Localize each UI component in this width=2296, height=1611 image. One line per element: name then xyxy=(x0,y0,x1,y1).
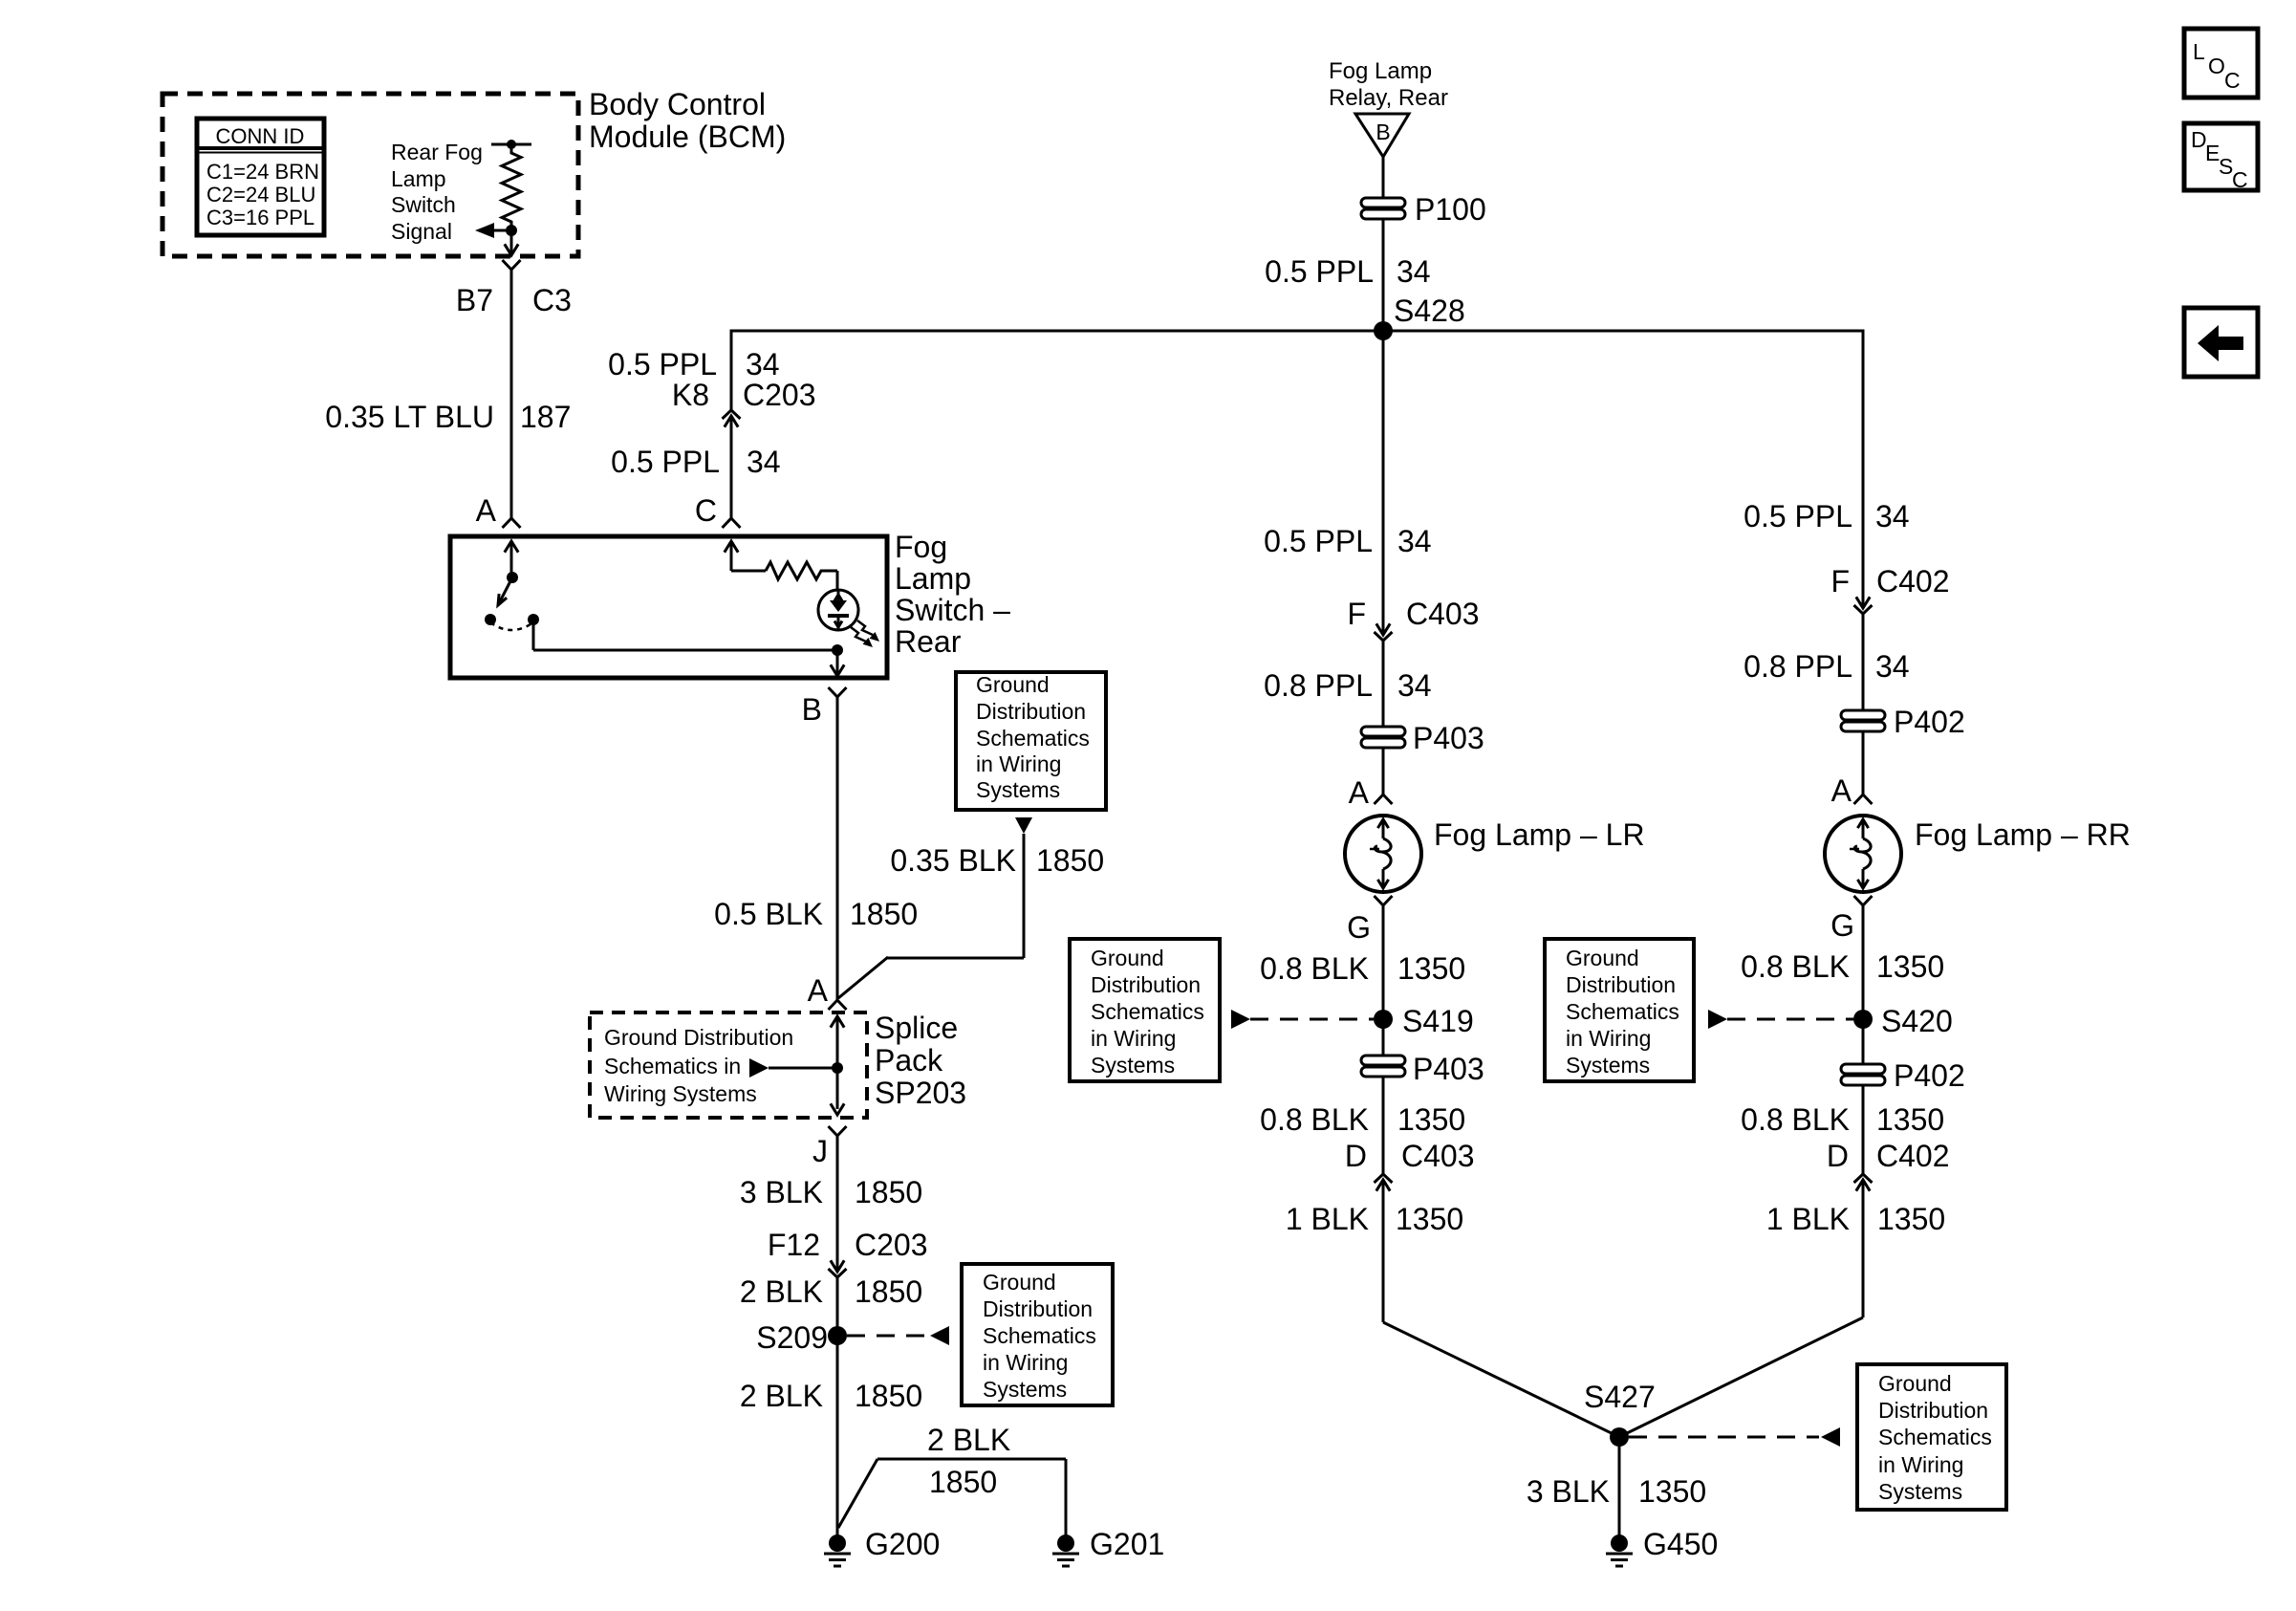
svg-text:1350: 1350 xyxy=(1876,1102,1944,1137)
label D | C403 xyxy=(1345,1139,1475,1173)
svg-text:Systems: Systems xyxy=(1878,1479,1962,1504)
splice S428 xyxy=(1374,294,1465,340)
switch pole wire w/ up arrow xyxy=(505,541,518,577)
splice S209 xyxy=(756,1320,847,1355)
svg-text:Systems: Systems xyxy=(976,777,1060,802)
svg-text:Switch: Switch xyxy=(391,192,456,217)
ground distribution reference box (S420) xyxy=(1545,939,1694,1081)
svg-text:C: C xyxy=(2232,167,2248,192)
label F | C402 xyxy=(1830,564,1949,599)
ground distribution reference box (S427) xyxy=(1857,1364,2006,1510)
svg-text:Distribution: Distribution xyxy=(1878,1398,1988,1423)
main distribution wire xyxy=(730,330,1865,333)
label 3 BLK | 1350 xyxy=(1527,1474,1706,1509)
grommet P100 xyxy=(1361,192,1486,227)
splice pack pin J connector xyxy=(829,1126,847,1136)
svg-text:C3=16 PPL: C3=16 PPL xyxy=(206,206,314,229)
svg-text:Distribution: Distribution xyxy=(1566,972,1676,997)
node: resistor bottom junction xyxy=(506,225,517,236)
wire: lamp G to S420 xyxy=(1862,905,1865,1019)
reference arrow to SP203 xyxy=(749,1058,837,1078)
label K8 | C203 xyxy=(672,378,816,412)
svg-text:Ground: Ground xyxy=(1566,946,1639,970)
splice pack internal wire xyxy=(831,1016,844,1115)
Fog Lamp - RR xyxy=(1825,816,1901,892)
Splice Pack SP203 dashed outline xyxy=(590,1012,867,1118)
label 0.5 PPL | 34 xyxy=(1264,524,1431,558)
connector C403 (D) xyxy=(1375,1174,1393,1203)
svg-text:Distribution: Distribution xyxy=(976,699,1086,724)
svg-text:Systems: Systems xyxy=(1566,1053,1650,1078)
connector C203 (K8) xyxy=(723,410,741,439)
svg-text:Schematics: Schematics xyxy=(1878,1425,1992,1449)
wire: P403 to lamp pin A xyxy=(1382,748,1385,795)
resistor (LED dropping) xyxy=(766,562,837,579)
svg-text:Fog: Fog xyxy=(895,530,947,564)
wire: S420 to P402 xyxy=(1862,1019,1865,1065)
label F | C403 xyxy=(1347,597,1479,631)
svg-text:0.5 PPL: 0.5 PPL xyxy=(1265,254,1374,289)
svg-text:3 BLK: 3 BLK xyxy=(1527,1474,1610,1509)
wire: S209 to G200 xyxy=(836,1336,839,1535)
splice S420 xyxy=(1853,1004,1953,1038)
wire: C402 to P402 xyxy=(1862,614,1865,711)
svg-text:Distribution: Distribution xyxy=(1091,972,1201,997)
svg-text:O: O xyxy=(2208,54,2225,78)
lamp pin G connector xyxy=(1854,896,1873,905)
wire: BCM B7 to switch pin A, 0.35 LT BLU 187 xyxy=(510,270,513,518)
svg-text:0.5 PPL: 0.5 PPL xyxy=(608,347,717,381)
label 0.35 LT BLU | 187 xyxy=(325,400,571,434)
svg-text:B: B xyxy=(802,692,822,727)
splice S419 xyxy=(1374,1004,1474,1038)
reference arrow to S420 xyxy=(1708,1010,1853,1029)
svg-text:0.8 PPL: 0.8 PPL xyxy=(1264,668,1373,703)
svg-text:34: 34 xyxy=(747,445,781,479)
svg-text:CONN ID: CONN ID xyxy=(216,124,305,148)
svg-text:A: A xyxy=(808,973,829,1008)
svg-text:S427: S427 xyxy=(1584,1380,1656,1414)
splice pack reference text xyxy=(604,1025,793,1106)
svg-text:Ground: Ground xyxy=(983,1270,1056,1295)
label 3 BLK | 1850 xyxy=(740,1175,922,1209)
svg-text:0.8 BLK: 0.8 BLK xyxy=(1741,949,1850,984)
wire: J to C203 F12 xyxy=(836,1136,839,1249)
Fog Lamp - LR xyxy=(1345,816,1421,892)
svg-text:1850: 1850 xyxy=(850,897,918,931)
switch blade and contacts xyxy=(485,572,539,630)
svg-text:0.8 BLK: 0.8 BLK xyxy=(1260,1102,1369,1137)
wire: resistor to LED xyxy=(836,571,839,591)
svg-text:G450: G450 xyxy=(1643,1527,1718,1561)
svg-text:C: C xyxy=(695,493,717,528)
svg-text:Ground: Ground xyxy=(1091,946,1164,970)
LED light emission arrows xyxy=(851,620,879,647)
label 0.5 PPL | 34 xyxy=(1265,254,1430,289)
svg-text:A: A xyxy=(1831,773,1852,808)
wire: switch pin B to splice pack xyxy=(836,697,839,1000)
svg-text:0.5 PPL: 0.5 PPL xyxy=(1744,499,1852,533)
switch pin C connector xyxy=(723,518,741,528)
Fog Lamp Switch - Rear label xyxy=(895,530,1010,659)
switch pin A connector xyxy=(503,518,521,528)
ground distribution reference box (S209) xyxy=(962,1264,1113,1405)
BCM label xyxy=(589,87,786,154)
svg-text:Schematics: Schematics xyxy=(976,726,1090,751)
svg-text:0.5 PPL: 0.5 PPL xyxy=(1264,524,1373,558)
label 0.8 BLK | 1350 xyxy=(1260,951,1465,986)
grommet P403 xyxy=(1361,721,1484,755)
svg-text:Switch –: Switch – xyxy=(895,593,1010,627)
svg-text:1 BLK: 1 BLK xyxy=(1766,1202,1850,1236)
wire: C203 to S209 xyxy=(836,1277,839,1336)
back-arrow box xyxy=(2184,308,2258,377)
LED indicator xyxy=(818,590,858,630)
svg-text:Schematics: Schematics xyxy=(1566,999,1679,1024)
label 0.8 BLK | 1350 xyxy=(1741,949,1944,984)
pin labels B7 | C3 xyxy=(456,283,572,317)
svg-text:Body Control: Body Control xyxy=(589,87,766,121)
svg-text:in Wiring: in Wiring xyxy=(983,1350,1068,1375)
signal arrow (to Rear Fog Lamp Switch Signal) xyxy=(475,223,511,238)
wire: main line to C203 K8 xyxy=(730,331,733,410)
wire: S428 down to C403 F xyxy=(1382,331,1385,612)
wire: C402 D down and to S427 xyxy=(1619,1203,1863,1437)
ground G450 xyxy=(1606,1527,1718,1566)
svg-text:Ground: Ground xyxy=(976,672,1050,697)
svg-text:Wiring Systems: Wiring Systems xyxy=(604,1081,757,1106)
svg-text:C403: C403 xyxy=(1401,1139,1475,1173)
ground distribution reference box (S419) xyxy=(1070,939,1220,1081)
svg-text:P403: P403 xyxy=(1413,721,1484,755)
svg-text:P402: P402 xyxy=(1894,705,1965,739)
svg-text:Splice: Splice xyxy=(875,1011,958,1045)
svg-text:2 BLK: 2 BLK xyxy=(927,1423,1010,1457)
svg-text:Relay, Rear: Relay, Rear xyxy=(1329,85,1448,111)
svg-text:Ground: Ground xyxy=(1878,1371,1952,1396)
svg-text:Rear Fog: Rear Fog xyxy=(391,140,483,164)
svg-text:Schematics: Schematics xyxy=(1091,999,1204,1024)
svg-text:0.35 BLK: 0.35 BLK xyxy=(890,843,1016,878)
svg-text:P403: P403 xyxy=(1413,1052,1484,1086)
svg-text:C203: C203 xyxy=(743,378,816,412)
svg-text:S420: S420 xyxy=(1881,1004,1953,1038)
lamp pin A connector xyxy=(1375,795,1393,804)
grommet P403 (lower) xyxy=(1361,1052,1484,1086)
wire: lamp G to S419 xyxy=(1382,905,1385,1019)
svg-text:34: 34 xyxy=(1397,524,1432,558)
svg-text:34: 34 xyxy=(1397,254,1431,289)
reference arrow to S209 xyxy=(847,1326,949,1345)
svg-text:Lamp: Lamp xyxy=(895,561,971,596)
connector C403 (F) xyxy=(1375,612,1393,641)
svg-text:C403: C403 xyxy=(1406,597,1480,631)
Splice Pack SP203 label xyxy=(875,1011,966,1110)
wire: main line corner down to C402 F xyxy=(1862,331,1865,585)
svg-text:G: G xyxy=(1347,910,1371,945)
wire: P403 to C403 D xyxy=(1382,1077,1385,1174)
svg-text:D: D xyxy=(1827,1139,1849,1173)
connector C402 (D) xyxy=(1854,1174,1873,1203)
svg-text:S428: S428 xyxy=(1394,294,1465,328)
svg-text:1350: 1350 xyxy=(1877,1202,1945,1236)
svg-text:P402: P402 xyxy=(1894,1058,1965,1093)
svg-text:A: A xyxy=(476,493,497,528)
label 2 BLK | 1850 xyxy=(740,1274,922,1309)
svg-text:1350: 1350 xyxy=(1396,1202,1463,1236)
svg-text:Systems: Systems xyxy=(983,1377,1067,1402)
svg-text:Fog Lamp: Fog Lamp xyxy=(1329,58,1432,84)
lamp pin G connector xyxy=(1375,896,1393,905)
splice S427 xyxy=(1584,1380,1656,1447)
svg-text:3 BLK: 3 BLK xyxy=(740,1175,823,1209)
grommet P402 xyxy=(1841,705,1965,739)
ground distribution reference box (0.35 BLK) xyxy=(956,672,1106,810)
label D | C402 xyxy=(1827,1139,1950,1173)
label 0.8 BLK | 1350 xyxy=(1741,1102,1944,1137)
svg-text:G201: G201 xyxy=(1090,1527,1164,1561)
svg-text:2 BLK: 2 BLK xyxy=(740,1379,823,1413)
Rear Fog Lamp Switch Signal pin label xyxy=(391,140,483,244)
svg-text:34: 34 xyxy=(1875,499,1910,533)
wire: P100 to S428 xyxy=(1382,219,1385,331)
svg-text:B: B xyxy=(1375,120,1390,144)
svg-text:Systems: Systems xyxy=(1091,1053,1175,1078)
wire: S427 to G450 xyxy=(1618,1437,1621,1535)
svg-text:D: D xyxy=(1345,1139,1367,1173)
svg-text:0.5 PPL: 0.5 PPL xyxy=(611,445,720,479)
svg-text:Lamp: Lamp xyxy=(391,166,446,191)
svg-text:Schematics: Schematics xyxy=(983,1323,1096,1348)
svg-text:C203: C203 xyxy=(855,1228,928,1262)
svg-text:P100: P100 xyxy=(1415,192,1486,227)
ground G201 xyxy=(1052,1527,1164,1566)
svg-text:C: C xyxy=(2224,68,2241,93)
Fog Lamp Relay, Rear label xyxy=(1329,58,1448,111)
svg-text:34: 34 xyxy=(1875,649,1910,684)
svg-text:F: F xyxy=(1347,597,1366,631)
label 0.8 PPL | 34 xyxy=(1264,668,1431,703)
svg-text:C2=24 BLU: C2=24 BLU xyxy=(206,183,315,207)
svg-text:Rear: Rear xyxy=(895,624,962,659)
svg-text:1850: 1850 xyxy=(855,1274,922,1309)
svg-text:Ground Distribution: Ground Distribution xyxy=(604,1025,793,1050)
node: LED to pin B junction xyxy=(832,644,843,656)
svg-text:F12: F12 xyxy=(768,1228,820,1262)
lamp pin A connector xyxy=(1854,795,1873,804)
node SP203 xyxy=(832,1062,843,1074)
wire: S419 to P403 xyxy=(1382,1019,1385,1056)
wire: switch contact to pin B xyxy=(533,620,837,650)
svg-text:1350: 1350 xyxy=(1876,949,1944,984)
svg-text:in Wiring: in Wiring xyxy=(1091,1026,1176,1051)
wire: C203 to switch pin C xyxy=(730,439,733,518)
CONN ID table xyxy=(197,119,324,235)
relay source triangle B xyxy=(1355,114,1409,157)
svg-text:K8: K8 xyxy=(672,378,709,412)
svg-text:1 BLK: 1 BLK xyxy=(1286,1202,1369,1236)
svg-text:34: 34 xyxy=(1397,668,1432,703)
svg-text:S419: S419 xyxy=(1402,1004,1474,1038)
splice pack pin A connector xyxy=(829,1000,847,1010)
svg-text:Module (BCM): Module (BCM) xyxy=(589,120,786,154)
label 0.5 BLK | 1850 xyxy=(714,897,918,931)
ground G200 xyxy=(824,1527,940,1566)
label 2 BLK / 1850 (G201 branch) xyxy=(927,1423,1010,1499)
svg-text:2 BLK: 2 BLK xyxy=(740,1274,823,1309)
label 1 BLK | 1350 xyxy=(1286,1202,1463,1236)
reference arrow to S419 xyxy=(1231,1010,1374,1029)
svg-text:1850: 1850 xyxy=(855,1175,922,1209)
wire: junction to pin B w/ down arrow xyxy=(831,650,844,676)
svg-text:in Wiring: in Wiring xyxy=(1878,1452,1963,1477)
svg-text:G200: G200 xyxy=(865,1527,940,1561)
label 0.8 BLK | 1350 xyxy=(1260,1102,1465,1137)
label 0.5 PPL | 34 xyxy=(608,347,779,381)
wire: C403 D down and to S427 xyxy=(1383,1203,1619,1437)
label F12 | C203 xyxy=(768,1228,928,1262)
svg-text:Distribution: Distribution xyxy=(983,1296,1093,1321)
svg-text:34: 34 xyxy=(746,347,780,381)
connector C203 (F12) xyxy=(829,1249,847,1277)
connector C402 (F) xyxy=(1854,585,1873,614)
svg-text:B7: B7 xyxy=(456,283,493,317)
reference arrow to S427 xyxy=(1629,1427,1840,1447)
svg-text:Schematics in: Schematics in xyxy=(604,1054,741,1078)
svg-text:0.5 BLK: 0.5 BLK xyxy=(714,897,823,931)
svg-text:187: 187 xyxy=(520,400,571,434)
svg-text:1850: 1850 xyxy=(855,1379,922,1413)
svg-text:1350: 1350 xyxy=(1397,1102,1465,1137)
wire: pin C to resistor xyxy=(725,541,766,571)
DESC reference box xyxy=(2184,123,2258,192)
wire: P402 to C402 D xyxy=(1862,1085,1865,1174)
wire: BCM internal down to pin B7 xyxy=(505,230,518,255)
svg-text:Fog Lamp – LR: Fog Lamp – LR xyxy=(1434,817,1645,852)
svg-text:0.8 PPL: 0.8 PPL xyxy=(1744,649,1852,684)
svg-text:Fog Lamp – RR: Fog Lamp – RR xyxy=(1915,817,2131,852)
wire: triangle to P100 xyxy=(1382,157,1385,199)
label 0.5 PPL | 34 xyxy=(1744,499,1909,533)
wire: C403 to P403 xyxy=(1382,641,1385,728)
svg-text:S209: S209 xyxy=(756,1320,828,1355)
svg-text:F: F xyxy=(1830,564,1850,599)
pin B7 / C3 connector xyxy=(503,260,521,270)
wire: 0.35 BLK 1850 branch xyxy=(838,834,1024,998)
svg-text:SP203: SP203 xyxy=(875,1076,966,1110)
svg-text:1350: 1350 xyxy=(1638,1474,1706,1509)
label 0.5 PPL | 34 xyxy=(611,445,780,479)
svg-text:1850: 1850 xyxy=(1036,843,1104,878)
label 1 BLK | 1350 xyxy=(1766,1202,1945,1236)
svg-text:L: L xyxy=(2193,39,2205,64)
switch pin B connector xyxy=(829,687,847,697)
svg-text:C402: C402 xyxy=(1876,564,1950,599)
svg-text:0.8 BLK: 0.8 BLK xyxy=(1741,1102,1850,1137)
svg-text:C402: C402 xyxy=(1876,1139,1950,1173)
LOC reference box xyxy=(2184,29,2258,98)
svg-text:A: A xyxy=(1349,775,1370,810)
svg-text:in Wiring: in Wiring xyxy=(976,751,1061,776)
svg-text:0.8 BLK: 0.8 BLK xyxy=(1260,951,1369,986)
Body Control Module (BCM) dashed outline xyxy=(162,94,578,256)
svg-text:C1=24 BRN: C1=24 BRN xyxy=(206,160,319,184)
wire: branch to G201, 2 BLK 1850 xyxy=(838,1459,1066,1535)
svg-text:in Wiring: in Wiring xyxy=(1566,1026,1651,1051)
reference arrow down from box xyxy=(1015,817,1032,834)
svg-text:1850: 1850 xyxy=(929,1465,997,1499)
svg-text:0.35 LT BLU: 0.35 LT BLU xyxy=(325,400,494,434)
svg-text:J: J xyxy=(812,1134,828,1168)
svg-text:Pack: Pack xyxy=(875,1043,943,1078)
label 2 BLK | 1850 xyxy=(740,1379,922,1413)
svg-text:1350: 1350 xyxy=(1397,951,1465,986)
Fog Lamp Switch - Rear box xyxy=(450,536,887,678)
resistor (BCM pull-up) xyxy=(491,140,531,230)
svg-text:Signal: Signal xyxy=(391,219,452,244)
grommet P402 (lower) xyxy=(1841,1058,1965,1093)
label 0.35 BLK | 1850 xyxy=(890,843,1104,878)
svg-text:C3: C3 xyxy=(532,283,572,317)
wire: P402 to lamp pin A xyxy=(1862,731,1865,795)
label 0.8 PPL | 34 xyxy=(1744,649,1909,684)
svg-text:G: G xyxy=(1830,908,1854,943)
